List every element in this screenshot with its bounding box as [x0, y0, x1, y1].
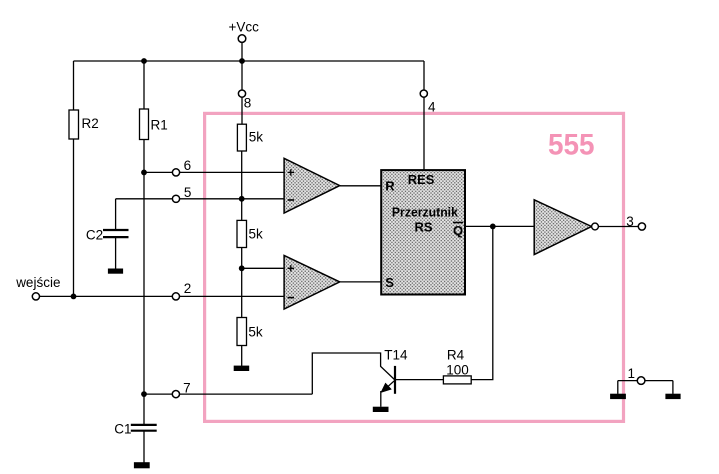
node pin 7 terminal: [172, 391, 179, 398]
capacitor C1: [114, 421, 156, 436]
node input terminal (wejscie): [32, 293, 39, 300]
wire pin 7 line: [144, 393, 312, 395]
junction Q output: [490, 224, 496, 230]
wire pin 5 line: [116, 198, 285, 200]
svg-text:3: 3: [626, 214, 634, 229]
wire Q to inverter: [465, 225, 534, 227]
svg-text:C2: C2: [86, 227, 103, 242]
svg-text:T14: T14: [384, 348, 408, 363]
resistor 5k (middle): [237, 220, 263, 247]
node pin 6 terminal: [172, 169, 179, 176]
wire Vcc stub: [241, 42, 243, 61]
wire C1 to ground: [143, 431, 145, 463]
ground (C1): [134, 462, 150, 468]
wire comparator2 output to S: [339, 281, 381, 283]
svg-text:Przerzutnik: Przerzutnik: [392, 205, 459, 220]
node pin 1 terminal: [637, 377, 645, 385]
junction R2 / input line: [71, 294, 77, 300]
svg-text:555: 555: [548, 129, 595, 162]
flip-flop box Przerzutnik RS: [381, 170, 465, 294]
svg-text:1: 1: [628, 366, 636, 381]
wire R4 to transistor collector: [395, 379, 443, 381]
resistor R2: [69, 110, 99, 139]
svg-text:wejście: wejście: [15, 275, 60, 290]
op-amp comparator 1: [284, 158, 340, 213]
svg-text:5k: 5k: [248, 325, 263, 340]
resistor 5k (bottom): [237, 318, 263, 346]
wire pin 1 left: [618, 380, 638, 382]
svg-text:5k: 5k: [249, 227, 264, 242]
wire input line to pin 2: [36, 295, 284, 297]
svg-text:Q: Q: [453, 223, 463, 238]
wire R1 bottom down to C1: [143, 140, 145, 425]
wire C2 stub: [115, 199, 117, 230]
node pin 3 terminal: [638, 223, 645, 230]
wire 5k3 to ground: [241, 346, 243, 367]
wire pin 1 right ground drop: [672, 381, 674, 394]
ground (pin 1 right): [665, 394, 680, 399]
wire pin 4 to RES: [423, 61, 425, 170]
op-amp comparator 2: [284, 255, 340, 309]
resistor 5k (top): [237, 124, 263, 151]
wire R2 top: [73, 61, 75, 110]
svg-text:6: 6: [184, 158, 192, 173]
wire 5k chain segment 1-2: [241, 151, 243, 220]
555 outline box (pink): [205, 113, 624, 421]
svg-text:5: 5: [184, 185, 192, 200]
wire Vcc to pin 8: [241, 61, 243, 90]
svg-text:8: 8: [244, 96, 252, 111]
wire top supply rail: [74, 60, 425, 62]
junction 5k chain / pin 5 line: [239, 196, 245, 202]
svg-text:7: 7: [183, 380, 191, 395]
inverter U2: [534, 200, 598, 255]
svg-text:R2: R2: [82, 116, 99, 131]
transistor T14: [380, 348, 408, 407]
wire pin 6 line: [144, 171, 284, 173]
svg-text:4: 4: [428, 100, 436, 115]
wire 5k chain segment 2-3: [241, 248, 243, 318]
ground (pin 1 left): [610, 394, 626, 399]
svg-text:+Vcc: +Vcc: [229, 20, 260, 35]
junction R1 / pin 6 line: [141, 170, 147, 176]
node Vcc terminal: [238, 35, 246, 43]
svg-text:C1: C1: [114, 421, 131, 436]
wire C2 to ground: [115, 238, 117, 269]
wire pin 1 left ground drop: [617, 381, 619, 394]
svg-text:100: 100: [446, 363, 469, 378]
capacitor C2: [86, 227, 129, 242]
node pin 4 terminal: [420, 90, 427, 97]
wire pin 7 up-over to base: [312, 353, 394, 394]
ground (T14 emitter): [373, 407, 389, 412]
junction 5k chain / comparator2 plus: [239, 265, 245, 271]
junction at Vcc rail / pin8 drop: [239, 58, 245, 64]
wire comparator1 output to R: [339, 185, 381, 187]
ground (5k bottom): [234, 366, 250, 371]
wire comparator2 plus stub: [242, 267, 284, 269]
junction at Vcc rail / R1: [141, 58, 147, 64]
junction R1 / pin 7 line: [141, 391, 147, 397]
resistor R4 100: [443, 348, 471, 384]
wire pin 1 right: [645, 380, 673, 382]
svg-text:R4: R4: [447, 348, 465, 363]
svg-text:S: S: [385, 275, 394, 290]
svg-text:2: 2: [184, 281, 192, 296]
svg-text:5k: 5k: [249, 129, 264, 144]
resistor R1: [140, 109, 168, 140]
ground (C2): [108, 269, 123, 274]
wire pin 8 to 5k chain: [241, 97, 243, 124]
wire Q junction down to R4: [471, 226, 493, 379]
wire R2 bottom to input line: [73, 139, 75, 296]
wire R1 top: [143, 61, 145, 109]
svg-text:RES: RES: [408, 172, 435, 187]
node pin 8 terminal: [238, 90, 245, 97]
node pin 2 terminal: [172, 293, 179, 300]
node pin 5 terminal: [172, 195, 179, 202]
svg-text:R1: R1: [151, 118, 168, 133]
svg-text:R: R: [385, 179, 395, 194]
svg-text:RS: RS: [415, 219, 433, 234]
wire inverter to pin 3: [598, 226, 638, 228]
